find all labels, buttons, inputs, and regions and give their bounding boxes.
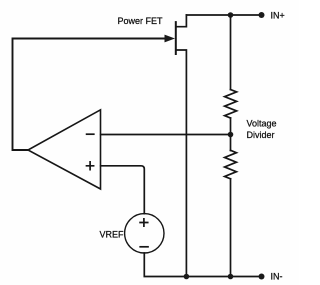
svg-text:Divider: Divider bbox=[247, 130, 275, 140]
op-amp non-inverting input plus sign bbox=[87, 162, 94, 170]
svg-text:VREF: VREF bbox=[100, 229, 125, 239]
node junction top (divider top) bbox=[228, 12, 234, 18]
svg-text:Power FET: Power FET bbox=[118, 16, 164, 26]
op-amp U1 triangle bbox=[28, 110, 101, 189]
node divider midpoint bbox=[228, 132, 234, 138]
terminal dot IN+ bbox=[259, 12, 265, 18]
wire top rail to IN+ bbox=[186, 14, 261, 16]
transistor Q1 drain lead bbox=[176, 15, 186, 27]
op-amp inverting input minus sign bbox=[87, 133, 94, 135]
wire inverting input to divider midpoint bbox=[101, 134, 231, 136]
svg-text:IN-: IN- bbox=[271, 271, 283, 281]
wire non-inverting input to VREF top bbox=[101, 166, 145, 214]
wire R1 bottom to mid node bbox=[230, 118, 232, 135]
svg-text:Voltage: Voltage bbox=[247, 119, 277, 129]
wire R2 bottom to bottom rail bbox=[230, 179, 232, 277]
resistor R2 (lower) bbox=[225, 150, 237, 179]
VREF minus sign bbox=[140, 246, 148, 248]
transistor Q1 source lead bbox=[176, 50, 186, 277]
VREF plus sign bbox=[140, 219, 148, 226]
svg-text:IN+: IN+ bbox=[271, 10, 285, 20]
voltage source VREF circle bbox=[125, 214, 164, 253]
gate arrowhead bbox=[165, 35, 176, 43]
node junction bottom (divider bottom) bbox=[228, 274, 234, 280]
terminal dot IN- bbox=[259, 274, 265, 280]
wire mid node down to R2 bbox=[230, 135, 232, 151]
transistor Q1 Power FET gate bar bbox=[175, 22, 177, 54]
wire divider top segment bbox=[230, 15, 232, 90]
node junction bottom (FET source) bbox=[184, 274, 190, 280]
wire VREF bottom to bottom rail bbox=[144, 253, 261, 277]
resistor R1 (upper) bbox=[225, 90, 237, 119]
wire feedback loop from op-amp output to FET gate bbox=[13, 39, 166, 151]
